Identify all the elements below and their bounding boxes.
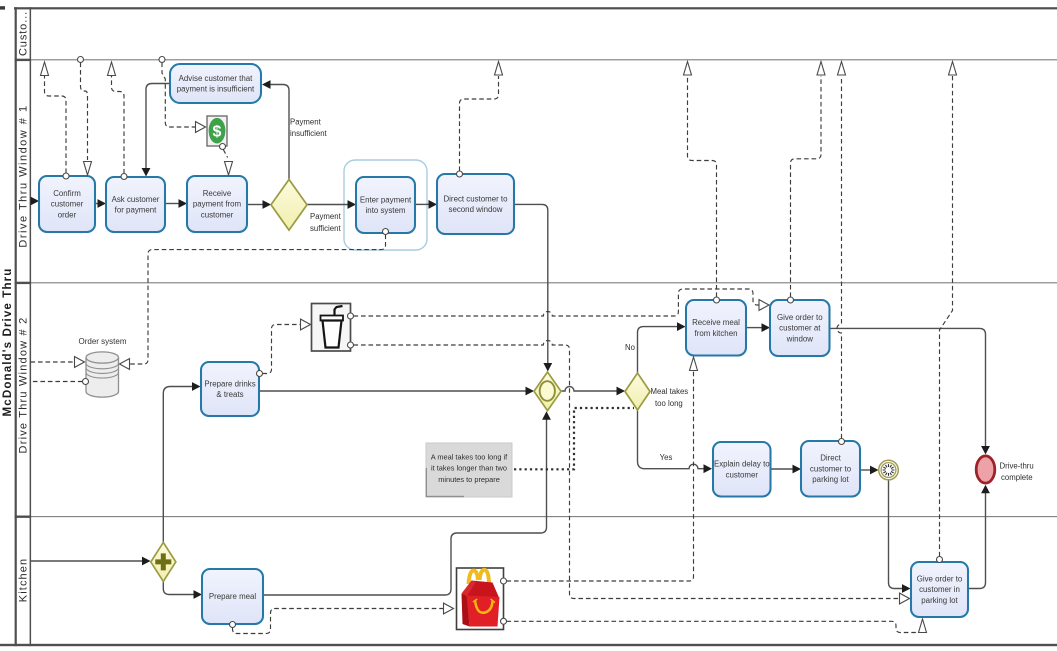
svg-text:it takes longer than two: it takes longer than two: [431, 464, 507, 473]
svg-text:Drive Thru Window # 2: Drive Thru Window # 2: [17, 317, 29, 454]
svg-text:Prepare drinks: Prepare drinks: [204, 379, 255, 388]
svg-text:customer: customer: [51, 200, 84, 209]
svg-text:payment from: payment from: [193, 200, 242, 209]
svg-text:Payment: Payment: [310, 212, 342, 221]
svg-text:$: $: [213, 124, 222, 141]
svg-text:Direct customer to: Direct customer to: [443, 194, 508, 203]
svg-text:Prepare meal: Prepare meal: [209, 592, 257, 601]
svg-text:into system: into system: [366, 206, 406, 215]
svg-text:Custo...: Custo...: [17, 11, 29, 56]
svg-text:from kitchen: from kitchen: [695, 329, 738, 338]
svg-text:Direct: Direct: [820, 454, 841, 463]
svg-text:Drive-thru: Drive-thru: [1000, 462, 1034, 471]
svg-text:sufficient: sufficient: [310, 224, 341, 233]
svg-text:for payment: for payment: [115, 206, 157, 215]
svg-text:Advise customer that: Advise customer that: [179, 74, 253, 83]
svg-text:second window: second window: [449, 205, 503, 214]
svg-text:Receive meal: Receive meal: [692, 318, 740, 327]
svg-text:Confirm: Confirm: [53, 189, 81, 198]
svg-text:minutes to prepare: minutes to prepare: [438, 475, 500, 484]
svg-text:McDonald's Drive Thru: McDonald's Drive Thru: [1, 268, 14, 417]
svg-text:too long: too long: [655, 399, 683, 408]
svg-text:customer in: customer in: [919, 585, 960, 594]
svg-text:payment is insufficient: payment is insufficient: [177, 85, 255, 94]
svg-text:order: order: [58, 211, 77, 220]
svg-text:No: No: [625, 343, 636, 352]
svg-text:customer: customer: [201, 211, 234, 220]
svg-text:Payment: Payment: [290, 118, 322, 127]
svg-text:Yes: Yes: [660, 453, 673, 462]
svg-text:Order system: Order system: [78, 337, 126, 346]
svg-text:Explain delay to: Explain delay to: [714, 460, 770, 469]
svg-text:customer to: customer to: [810, 464, 852, 473]
svg-text:A meal takes too long if: A meal takes too long if: [431, 453, 508, 462]
svg-text:Enter payment: Enter payment: [360, 195, 412, 204]
svg-text:Drive Thru Window # 1: Drive Thru Window # 1: [17, 104, 29, 247]
svg-text:Receive: Receive: [203, 189, 232, 198]
svg-text:Kitchen: Kitchen: [17, 558, 29, 602]
svg-text:window: window: [786, 335, 814, 344]
svg-text:& treats: & treats: [216, 390, 243, 399]
svg-text:complete: complete: [1001, 473, 1033, 482]
svg-text:Give order to: Give order to: [917, 574, 963, 583]
svg-text:insufficient: insufficient: [290, 129, 328, 138]
svg-text:Give order to: Give order to: [777, 313, 823, 322]
svg-text:Meal takes: Meal takes: [651, 387, 689, 396]
svg-text:customer: customer: [726, 470, 759, 479]
svg-text:parking lot: parking lot: [921, 596, 958, 605]
svg-text:parking lot: parking lot: [812, 475, 849, 484]
svg-text:customer at: customer at: [779, 324, 821, 333]
svg-text:Ask customer: Ask customer: [112, 195, 160, 204]
